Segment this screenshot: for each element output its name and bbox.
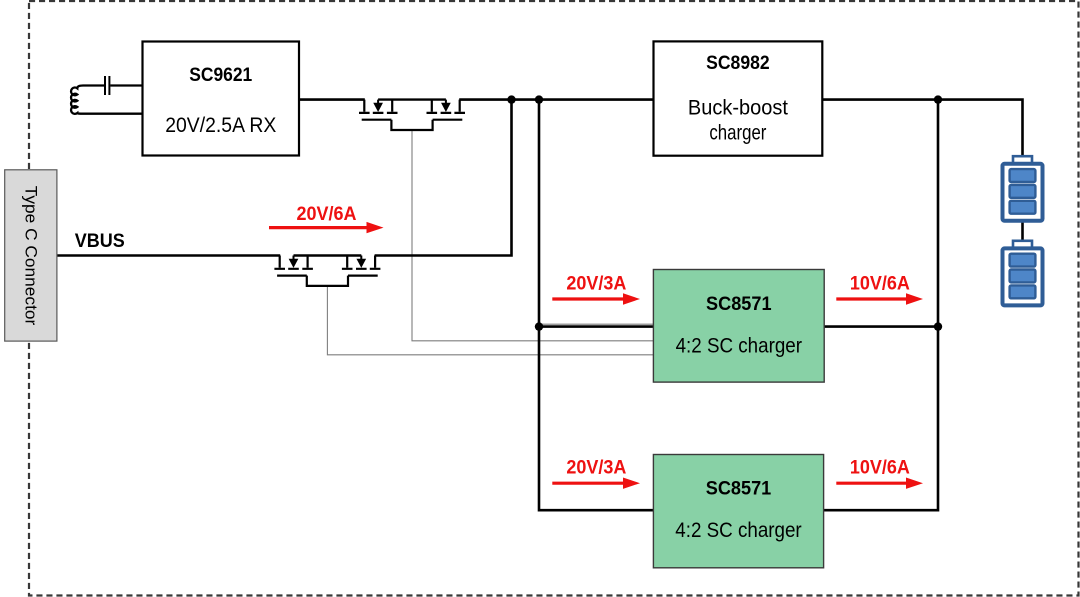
svg-text:Buck-boost: Buck-boost	[688, 97, 788, 120]
svg-text:10V/6A: 10V/6A	[850, 457, 910, 478]
svg-text:4:2 SC charger: 4:2 SC charger	[675, 519, 801, 542]
svg-text:charger: charger	[709, 122, 766, 145]
svg-text:VBUS: VBUS	[75, 231, 125, 252]
svg-text:SC9621: SC9621	[189, 65, 252, 86]
svg-text:Type C Connector: Type C Connector	[21, 186, 40, 326]
svg-text:SC8982: SC8982	[706, 53, 770, 74]
svg-text:SC8571: SC8571	[706, 479, 772, 500]
svg-text:SC8571: SC8571	[706, 294, 772, 315]
svg-text:20V/3A: 20V/3A	[566, 273, 626, 294]
svg-text:10V/6A: 10V/6A	[850, 273, 910, 294]
svg-text:20V/3A: 20V/3A	[566, 457, 626, 478]
svg-text:20V/6A: 20V/6A	[297, 204, 357, 225]
svg-text:20V/2.5A RX: 20V/2.5A RX	[165, 114, 276, 137]
svg-text:4:2 SC charger: 4:2 SC charger	[676, 335, 802, 358]
